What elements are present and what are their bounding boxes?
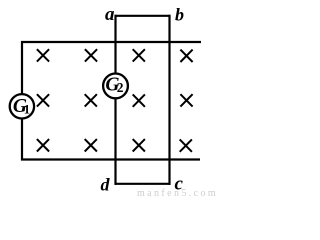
svg-text:a: a (105, 4, 115, 25)
svg-text:b: b (175, 5, 184, 25)
wire: loop bottom d-c (115, 183, 171, 185)
field cross row2 col2 (85, 94, 97, 106)
field cross row2 col3 (133, 94, 145, 106)
wire: loop side b-c (168, 15, 170, 185)
field cross row2 col4 (180, 94, 192, 106)
field cross row1 col1 (37, 49, 49, 61)
field cross row3 col2 (85, 139, 97, 151)
galvanometer G1 (10, 94, 34, 118)
wire: outer circuit left (21, 41, 23, 161)
svg-text:manfen5.com: manfen5.com (137, 188, 216, 197)
wire: outer circuit top (21, 41, 201, 43)
svg-text:2: 2 (117, 80, 124, 95)
field cross row2 col1 (37, 94, 49, 106)
svg-text:d: d (101, 174, 111, 194)
galvanometer G2 (103, 74, 128, 99)
field cross row3 col1 (37, 139, 49, 151)
field cross row3 col4 (180, 139, 192, 151)
field cross row1 col3 (133, 49, 145, 61)
svg-text:1: 1 (24, 102, 31, 117)
wire: loop side a-d (114, 15, 116, 185)
field cross row3 col3 (133, 139, 145, 151)
wire: loop top a-b (115, 15, 171, 17)
wire: outer circuit bottom (21, 158, 200, 160)
field cross row1 col2 (85, 49, 97, 61)
field cross row1 col4 (180, 50, 192, 62)
